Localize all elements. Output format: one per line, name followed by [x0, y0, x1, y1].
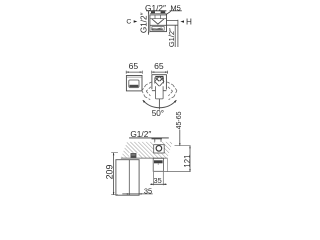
- leader underline / pipe top line: [129, 137, 169, 139]
- threaded stub left: [151, 11, 155, 13]
- 209 dim line: [113, 153, 115, 195]
- swing arc: [143, 100, 176, 107]
- trim 35 dim line w outside arrows: [150, 183, 167, 185]
- dim line 65 left: [126, 71, 142, 73]
- handle dark edge: [130, 85, 139, 87]
- lower box diagonal: [153, 28, 162, 30]
- side profile line: [166, 158, 168, 172]
- leader underline M5: [170, 10, 182, 12]
- 121 dim line: [189, 146, 191, 172]
- svg-text:121: 121: [183, 155, 192, 168]
- svg-text:65: 65: [129, 61, 139, 71]
- trim tick: [157, 163, 159, 165]
- dashed wing left: [142, 82, 152, 100]
- svg-text:50°: 50°: [152, 109, 164, 118]
- handle under line: [130, 87, 139, 89]
- shared extension line: [175, 145, 191, 147]
- body outline U1: [150, 15, 167, 32]
- svg-text:G1/2″: G1/2″: [140, 12, 149, 33]
- dashed wing right: [167, 82, 177, 100]
- port bores: [155, 15, 160, 19]
- V lever (top view): [152, 19, 165, 24]
- square plate side: [152, 75, 167, 91]
- left dimension line: [148, 11, 150, 35]
- 45-65 dim line: [179, 130, 181, 146]
- cartridge circle: [156, 146, 162, 152]
- svg-text:209: 209: [104, 165, 114, 180]
- arc arrow right: [174, 100, 177, 103]
- knob X strokes: [155, 78, 163, 81]
- lower dark bar: [151, 29, 162, 30]
- extension ticks left view: [126, 71, 142, 74]
- 209 ticks: [111, 153, 118, 195]
- svg-text:35: 35: [144, 186, 152, 195]
- plate inner top line: [126, 76, 142, 78]
- wall hatch band: [121, 142, 173, 158]
- dim line 65 right: [152, 71, 168, 73]
- spout column: [116, 160, 139, 196]
- stub base line: [150, 13, 167, 15]
- handle top dark bar: [155, 76, 163, 78]
- leader underline G1/2: [146, 10, 166, 12]
- handle housing sides: [155, 77, 164, 83]
- 121 bottom extension: [164, 171, 191, 173]
- diamond knob: [155, 76, 164, 86]
- arc arrow left: [143, 100, 146, 103]
- column 35 dim: [122, 193, 152, 195]
- aerator: [131, 153, 137, 158]
- trim 35 extensions: [154, 172, 164, 185]
- recess knockout: [129, 153, 138, 158]
- valve housing: [154, 145, 165, 153]
- trim dark bar: [154, 160, 163, 163]
- down pipe left line: [174, 25, 176, 47]
- square plate front: [126, 76, 142, 91]
- svg-text:35: 35: [153, 176, 161, 185]
- svg-text:C: C: [126, 19, 131, 26]
- supply pipe verticals: [155, 138, 161, 145]
- svg-text:G1/2″: G1/2″: [130, 129, 151, 139]
- handle front outline: [129, 80, 139, 87]
- pipe flange: [152, 138, 162, 140]
- arrow H: [180, 20, 184, 22]
- M5 leader arrow: [162, 11, 171, 17]
- column inner line: [128, 160, 130, 196]
- arrow C: [134, 20, 138, 22]
- svg-text:65: 65: [154, 61, 164, 71]
- svg-text:45-65: 45-65: [176, 111, 183, 129]
- svg-text:G1/2″: G1/2″: [167, 28, 176, 47]
- threaded stub right: [161, 11, 166, 13]
- pipe end / down pipe right line: [177, 20, 179, 47]
- body mid line: [150, 24, 167, 26]
- pipe channel knockout: [155, 141, 160, 145]
- svg-text:H: H: [186, 17, 192, 26]
- body lower box: [152, 27, 164, 31]
- lever stem: [158, 99, 160, 110]
- wall face line: [121, 157, 167, 159]
- extension ticks right view: [152, 71, 168, 74]
- body inner top line: [150, 18, 167, 20]
- pipe to H (right): [167, 20, 178, 25]
- lever body: [156, 86, 164, 99]
- trim outer box: [153, 158, 163, 171]
